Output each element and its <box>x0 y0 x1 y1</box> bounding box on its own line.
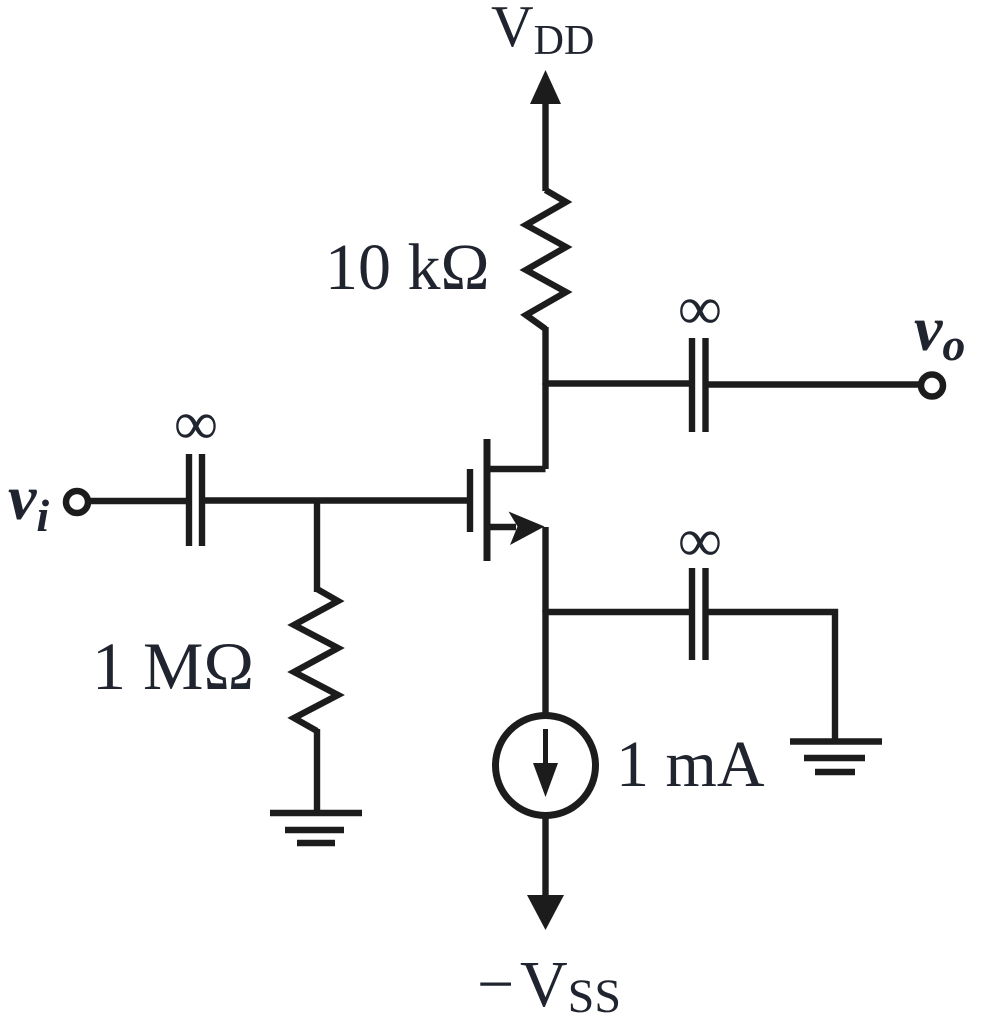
label RD value 10 kOhm <box>325 231 490 304</box>
svg-text:10 kΩ: 10 kΩ <box>325 231 490 304</box>
wire node S to current source I1 <box>542 610 548 716</box>
power VDD arrow <box>530 70 561 191</box>
net VDD label <box>491 0 594 64</box>
svg-text:1 MΩ: 1 MΩ <box>92 628 254 704</box>
capacitor C3 bypass (infinite) <box>692 568 706 660</box>
svg-text:vi: vi <box>8 462 49 541</box>
terminal vo open circle <box>921 375 943 397</box>
wire vi to capacitor C1 <box>88 498 189 504</box>
power -VSS arrow <box>527 895 564 930</box>
wire gate node G to resistor RG <box>314 501 320 593</box>
net -VSS label <box>477 948 621 1023</box>
wire RG bottom to ground <box>314 729 320 813</box>
terminal vi open circle <box>66 491 88 513</box>
wire node S to capacitor C3 <box>546 609 691 615</box>
svg-text:∞: ∞ <box>678 275 722 343</box>
wire C3 to ground corner <box>706 612 836 740</box>
wire current source to -VSS arrow <box>542 816 548 898</box>
svg-text:VDD: VDD <box>491 0 594 64</box>
label RG value 1 MOhm <box>92 628 254 704</box>
wire RD bottom to drain node D <box>542 327 548 385</box>
label I1 value 1 mA <box>616 728 765 801</box>
svg-text:−VSS: −VSS <box>477 948 621 1023</box>
capacitor C2 coupling (infinite) <box>692 338 706 432</box>
svg-text:vo: vo <box>914 293 965 370</box>
label C3 value infinity <box>678 507 722 575</box>
svg-text:1 mA: 1 mA <box>616 728 765 801</box>
label C1 value infinity <box>174 390 218 458</box>
label vi <box>8 462 49 541</box>
transistor Q1 NMOS <box>470 439 546 561</box>
wire Q1 source to node S <box>542 527 548 612</box>
wire C1 to gate node G <box>202 497 470 503</box>
label C2 value infinity <box>678 275 722 343</box>
svg-text:∞: ∞ <box>174 390 218 458</box>
wire node D to capacitor C2 <box>546 380 691 386</box>
wire drain node D to Q1 drain <box>542 383 548 469</box>
svg-text:∞: ∞ <box>678 507 722 575</box>
ground symbol (C3) <box>790 742 882 773</box>
ground symbol (RG) <box>270 813 362 843</box>
label vo <box>914 293 965 370</box>
capacitor C1 coupling (infinite) <box>189 454 202 546</box>
current source I1 <box>496 716 596 816</box>
resistor RD 10 kOhm zigzag <box>526 190 566 329</box>
wire C2 to vo terminal <box>706 381 921 387</box>
resistor RG 1 MOhm zigzag <box>294 589 338 731</box>
